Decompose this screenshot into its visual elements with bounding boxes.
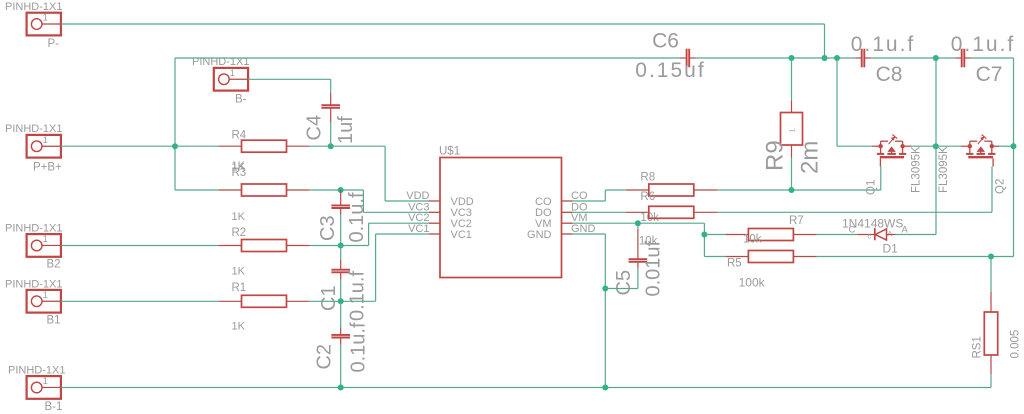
wire D1 to switch node	[896, 234, 937, 236]
capacitor C7 0.1u.f	[951, 33, 1016, 86]
wire DO pin	[573, 211, 626, 213]
svg-text:R9: R9	[762, 140, 789, 171]
junction C3 bottom	[338, 243, 344, 249]
resistor R5 100k	[726, 251, 817, 290]
junction rail2 switch-node drop	[933, 55, 939, 61]
resistor R8 10k	[626, 172, 718, 225]
svg-text:C6: C6	[652, 30, 679, 53]
capacitor C4 1uf	[304, 93, 357, 144]
junction P-/rail2	[822, 55, 828, 61]
svg-text:1K: 1K	[232, 160, 246, 172]
wire rail2 end (C7 to corner)	[971, 57, 1014, 59]
wire R5 to RS1 row	[817, 256, 1014, 258]
wire P+B+ to R4	[61, 145, 219, 147]
svg-text:0.005: 0.005	[1010, 330, 1022, 359]
wire rail2 mid (C6 to C8)	[696, 57, 856, 59]
wire Q1 to switch node	[903, 145, 936, 147]
wire R3 to VC3	[309, 189, 363, 191]
svg-text:B-1: B-1	[45, 401, 63, 413]
svg-text:1K: 1K	[232, 211, 246, 223]
svg-text:A: A	[902, 225, 909, 236]
wire junction to C1	[340, 246, 342, 260]
wire split to R7	[704, 234, 725, 236]
wire split to R5	[704, 256, 725, 258]
svg-text:B1: B1	[47, 315, 61, 327]
junction C3 top	[338, 187, 344, 193]
wire C4 to junction	[330, 122, 332, 146]
svg-text:P+B+: P+B+	[33, 162, 62, 174]
junction GND C5	[602, 286, 608, 292]
junction switch node mid	[933, 143, 939, 149]
junction C2 bottom rail	[338, 385, 344, 391]
svg-text:10k: 10k	[743, 234, 762, 246]
pin header B2	[5, 223, 62, 271]
svg-text:1: 1	[788, 128, 797, 132]
wire R9 to gate row	[791, 158, 793, 191]
svg-text:1: 1	[43, 13, 48, 23]
svg-text:CO: CO	[571, 190, 588, 202]
junction C5 top	[635, 220, 641, 226]
capacitor C6 0.15uf	[635, 30, 705, 83]
op-amp U1 (IC U$1)	[406, 146, 595, 278]
wire P- drop to rail2	[824, 24, 826, 58]
svg-text:C7: C7	[976, 63, 1003, 86]
svg-text:0.1u.f: 0.1u.f	[851, 33, 916, 56]
capacitor C5 0.01uf	[613, 229, 665, 297]
svg-text:0.1u.f: 0.1u.f	[346, 271, 368, 321]
wire VC1 into pin	[376, 233, 429, 235]
pin header B1	[5, 279, 62, 327]
svg-text:C1: C1	[318, 285, 340, 311]
wire right edge drop	[1013, 58, 1015, 257]
wire R1 to VC1	[309, 300, 375, 302]
svg-text:VDD: VDD	[406, 190, 429, 202]
wire CO to R8	[605, 189, 626, 191]
diode D1 1N4148WS	[842, 217, 909, 256]
svg-text:1K: 1K	[232, 266, 246, 278]
wire P+B+ riser	[174, 58, 176, 190]
svg-text:1K: 1K	[232, 321, 246, 333]
junction R7 R5 split	[701, 232, 707, 238]
svg-text:R7: R7	[789, 215, 804, 227]
svg-text:c: c	[868, 234, 872, 241]
resistor R6 10k	[626, 191, 718, 248]
junction P+B+ row	[172, 143, 178, 149]
wire R2 to VC2	[309, 245, 368, 247]
transistor Q2 FL3095K	[938, 135, 1007, 194]
svg-text:0.1u.f: 0.1u.f	[346, 192, 368, 242]
wire R6 to Q2 gate	[717, 211, 992, 213]
wire GND pin	[573, 233, 606, 235]
svg-text:R1: R1	[232, 282, 247, 294]
wire VC2 rise	[368, 223, 370, 245]
wire CO pin	[573, 200, 606, 202]
wire VM junction to C5	[637, 223, 639, 229]
capacitor C3 0.1u.f	[317, 190, 368, 243]
svg-text:R5: R5	[727, 258, 742, 270]
wire B2 to R2	[61, 245, 219, 247]
wire RS1 top lead	[990, 257, 992, 293]
svg-text:R2: R2	[232, 227, 247, 239]
wire RS1 to bottom rail	[990, 374, 992, 388]
wire switch node riser	[935, 58, 937, 235]
wire Q1 gate rise	[880, 167, 882, 191]
resistor R1 1K	[219, 282, 310, 333]
svg-text:PINHD-1X1: PINHD-1X1	[5, 123, 62, 135]
junction R9 bottom	[789, 187, 795, 193]
svg-text:1: 1	[43, 290, 48, 300]
wire VDD drop	[384, 146, 386, 201]
resistor RS1 0.005	[972, 292, 1022, 374]
resistor R4 1K	[219, 130, 310, 174]
wire P- net top rail	[61, 23, 825, 25]
wire B- to C4	[248, 79, 331, 93]
svg-text:B2: B2	[47, 259, 61, 271]
resistor R3 1K	[219, 160, 310, 223]
wire R4 to VDD corner	[309, 145, 385, 147]
svg-text:VDD: VDD	[451, 196, 474, 208]
wire VC3 into pin	[363, 211, 429, 213]
junction rail2 Q1 drop	[834, 55, 840, 61]
wire C2 to bottom rail	[340, 345, 342, 388]
resistor R2 1K	[219, 227, 310, 278]
wire C5 to GND row	[605, 268, 638, 289]
wire riser to R3	[175, 189, 219, 191]
svg-text:GND: GND	[571, 223, 596, 235]
pin header P-	[5, 1, 62, 50]
wire C3 to B2 row	[340, 214, 342, 245]
svg-text:C8: C8	[876, 63, 903, 86]
wire Q1 left lead	[872, 145, 881, 147]
svg-text:Q2: Q2	[995, 179, 1007, 194]
svg-text:C4: C4	[304, 115, 326, 141]
svg-text:P-: P-	[48, 38, 60, 50]
junction C1 bottom	[338, 298, 344, 304]
svg-text:0.1u.f: 0.1u.f	[347, 322, 369, 372]
svg-text:PINHD-1X1: PINHD-1X1	[5, 1, 62, 13]
pin header B-1	[8, 365, 65, 414]
wire Q2 gate rise	[991, 167, 993, 213]
wire C1 to B1 row	[340, 279, 342, 301]
wire R8 to Q1 gate	[717, 189, 880, 191]
svg-text:0.01uf: 0.01uf	[643, 240, 665, 296]
wire CO rise	[604, 190, 606, 201]
junction rail2 R9	[789, 55, 795, 61]
wire Q2 to right riser	[992, 145, 1014, 147]
svg-text:R4: R4	[232, 130, 247, 142]
svg-text:PINHD-1X1: PINHD-1X1	[5, 223, 62, 235]
svg-text:RS1: RS1	[972, 336, 984, 358]
svg-text:VC1: VC1	[408, 223, 429, 235]
svg-text:1uf: 1uf	[335, 116, 357, 144]
svg-text:PINHD-1X1: PINHD-1X1	[8, 365, 65, 377]
wire R7 to D1	[817, 234, 858, 236]
svg-text:100k: 100k	[739, 276, 766, 290]
wire VC1 rise	[375, 234, 377, 301]
svg-text:C5: C5	[613, 270, 635, 296]
wire VM pin	[573, 222, 705, 224]
capacitor C1 0.1u.f	[318, 260, 369, 321]
svg-text:FL3095K: FL3095K	[938, 146, 950, 193]
svg-text:D1: D1	[883, 242, 899, 256]
capacitor C2 0.1u.f	[314, 322, 370, 372]
wire GND drop	[604, 234, 606, 388]
svg-text:CO: CO	[535, 196, 552, 208]
svg-text:Q1: Q1	[866, 180, 878, 195]
resistor R7 10k	[726, 215, 817, 246]
wire VC3 drop	[362, 190, 364, 212]
wire VM drop	[703, 223, 705, 256]
wire rail2 to Q1	[837, 58, 872, 146]
svg-text:B-: B-	[235, 94, 247, 106]
svg-text:C2: C2	[314, 344, 336, 370]
wire switch node to Q2	[936, 145, 970, 147]
transistor Q1 FL3095K	[866, 135, 923, 195]
wire rail2 left (P+B+ to C6)	[175, 57, 680, 59]
svg-text:0.15uf: 0.15uf	[635, 59, 705, 82]
svg-text:R6: R6	[640, 191, 655, 203]
svg-text:R8: R8	[640, 172, 655, 184]
svg-text:FL3095K: FL3095K	[911, 146, 923, 193]
wire rail2 right (C8 to C7)	[871, 57, 956, 59]
junction C4 bottom	[328, 143, 334, 149]
resistor R9 2m	[762, 100, 824, 174]
svg-text:1: 1	[43, 135, 48, 145]
svg-text:GND: GND	[527, 229, 552, 241]
svg-text:1: 1	[43, 234, 48, 244]
wire rail2 to R9	[791, 58, 793, 100]
svg-text:PINHD-1X1: PINHD-1X1	[5, 279, 62, 291]
svg-text:2m: 2m	[797, 141, 824, 174]
junction RS1 top	[988, 254, 994, 260]
pin header P+B+	[5, 123, 62, 174]
svg-text:0.1u.f: 0.1u.f	[951, 33, 1016, 56]
pin header B-	[192, 56, 249, 106]
junction Q2 right riser	[1011, 143, 1017, 149]
svg-text:C3: C3	[317, 215, 339, 241]
svg-text:VC1: VC1	[451, 229, 472, 241]
svg-text:1: 1	[43, 376, 48, 386]
wire bottom rail B-1	[61, 387, 991, 389]
wire B1 junction to C2	[340, 301, 342, 327]
svg-text:1: 1	[230, 68, 235, 78]
junction GND bottom rail	[602, 385, 608, 391]
svg-text:C: C	[849, 225, 856, 236]
wire VC2 into pin	[369, 222, 429, 224]
wire B1 to R1	[61, 300, 219, 302]
capacitor C8 0.1u.f	[851, 33, 916, 86]
svg-text:U$1: U$1	[439, 146, 460, 158]
wire VDD into pin	[385, 200, 429, 202]
